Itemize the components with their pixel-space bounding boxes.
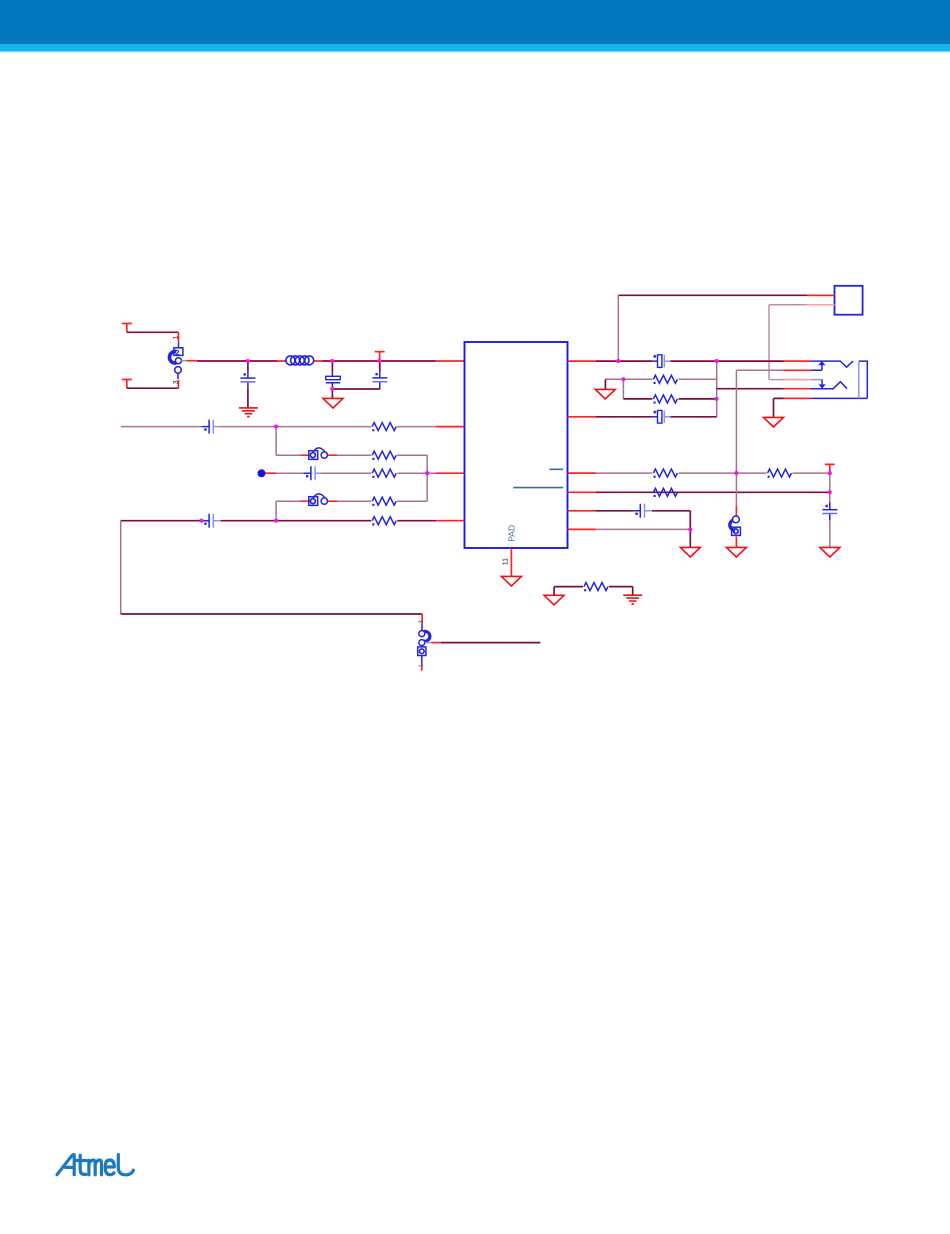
svg-text:3: 3: [419, 621, 425, 624]
svg-text:PAD: PAD: [507, 525, 517, 542]
svg-text:1: 1: [418, 664, 424, 667]
svg-text:11: 11: [503, 558, 510, 565]
svg-text:3: 3: [173, 380, 180, 384]
svg-text:1: 1: [172, 335, 179, 339]
